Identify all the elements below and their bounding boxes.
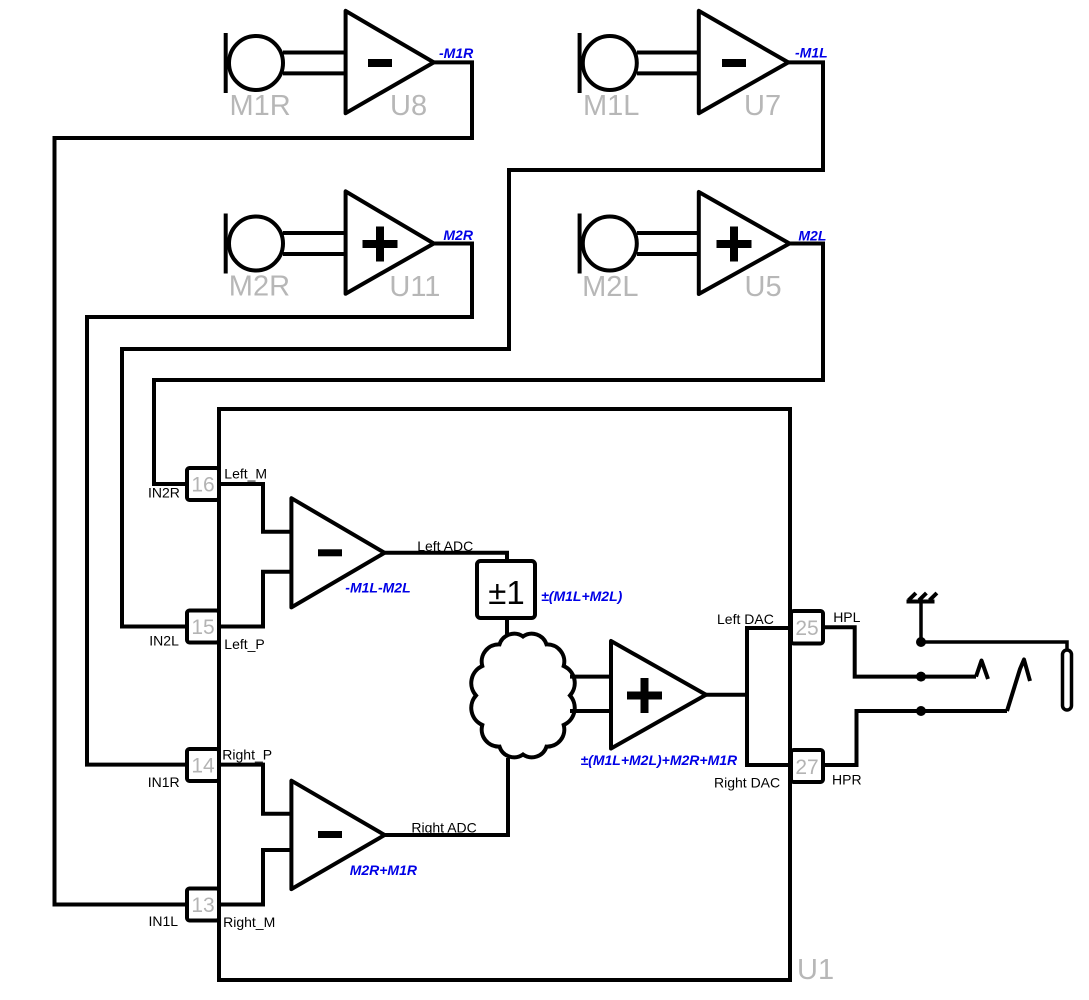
svg-text:-M1L-M2L: -M1L-M2L <box>345 580 410 596</box>
op-amp right ADC <box>291 781 384 889</box>
svg-text:U7: U7 <box>744 90 781 122</box>
svg-text:-M1L: -M1L <box>795 45 828 61</box>
jack sleeve <box>1063 650 1072 710</box>
svg-text:±(M1L+M2L): ±(M1L+M2L) <box>541 588 623 604</box>
svg-text:Right_M: Right_M <box>223 914 275 930</box>
op-amp summer <box>611 641 706 749</box>
svg-text:27: 27 <box>795 756 818 779</box>
wire U7 out to pin15 <box>122 62 823 626</box>
wire U11 out to pin14 <box>87 244 472 765</box>
cloud mixer <box>471 634 574 758</box>
ground <box>907 593 937 602</box>
wire ±1 to cloud <box>505 618 509 636</box>
wire pin15 to left ADC amp <box>219 572 291 627</box>
op-amp U5 <box>699 192 790 294</box>
pin 16 <box>187 468 219 500</box>
svg-text:HPR: HPR <box>832 772 862 788</box>
jack tip contact <box>976 661 988 680</box>
wire summer to DAC bracket <box>706 693 747 697</box>
svg-text:IN1R: IN1R <box>148 774 180 790</box>
svg-text:M2L: M2L <box>798 227 826 243</box>
svg-text:13: 13 <box>191 894 214 917</box>
svg-text:IN1L: IN1L <box>149 913 179 929</box>
svg-text:M2R: M2R <box>229 271 290 303</box>
wire pin14 to right ADC amp <box>219 765 291 814</box>
svg-text:M2R: M2R <box>443 227 473 243</box>
wire U8 out to pin13 <box>55 62 473 904</box>
svg-text:14: 14 <box>191 755 215 778</box>
pin 15 <box>187 611 219 643</box>
svg-text:M2R+M1R: M2R+M1R <box>350 862 418 878</box>
svg-text:16: 16 <box>191 474 214 497</box>
svg-text:U1: U1 <box>797 954 834 986</box>
svg-text:U5: U5 <box>745 271 782 303</box>
wire HPL to jack tip <box>823 627 976 676</box>
svg-text:HPL: HPL <box>833 609 860 625</box>
pin 25 <box>791 611 823 644</box>
microphone M2R <box>226 214 346 274</box>
junction ring <box>916 706 926 716</box>
svg-text:M1L: M1L <box>583 90 639 122</box>
svg-text:U8: U8 <box>390 90 427 122</box>
svg-text:U11: U11 <box>389 271 440 303</box>
svg-text:Left DAC: Left DAC <box>717 611 774 627</box>
wire HPR to jack ring <box>823 711 1007 765</box>
wire U5 out to pin16 <box>154 244 823 485</box>
svg-text:25: 25 <box>795 617 818 640</box>
svg-text:Right_P: Right_P <box>222 747 272 763</box>
svg-text:15: 15 <box>191 616 214 639</box>
svg-text:M2L: M2L <box>582 271 638 303</box>
svg-text:IN2L: IN2L <box>149 633 179 649</box>
microphone M2L <box>580 214 699 274</box>
wire right ADC to cloud <box>385 758 508 835</box>
op-amp U7 <box>699 11 789 113</box>
svg-text:Left_M: Left_M <box>224 466 267 482</box>
op-amp left ADC <box>291 498 384 607</box>
svg-text:IN2R: IN2R <box>148 485 180 501</box>
op-amp U8 <box>346 11 434 113</box>
svg-text:Right DAC: Right DAC <box>714 775 780 791</box>
wire pin13 to right ADC amp <box>219 850 291 905</box>
wire ground to jack sleeve <box>921 602 1067 651</box>
junction tip <box>916 672 926 682</box>
svg-text:M1R: M1R <box>230 90 291 122</box>
microphone M1R <box>226 33 346 93</box>
wire cloud to summer top <box>570 675 611 679</box>
microphone M1L <box>580 33 699 93</box>
IC U1 body <box>219 409 790 980</box>
wire pin16 to left ADC amp <box>219 484 291 532</box>
pin 14 <box>187 749 219 781</box>
DAC bracket <box>747 628 791 765</box>
jack ring contact <box>1007 660 1030 712</box>
wire left ADC to ±1 <box>385 553 507 561</box>
svg-text:-M1R: -M1R <box>439 45 474 61</box>
junction sleeve <box>916 637 926 647</box>
svg-text:Left_P: Left_P <box>224 636 264 652</box>
gain block ±1 <box>477 561 535 618</box>
svg-text:±(M1L+M2L)+M2R+M1R: ±(M1L+M2L)+M2R+M1R <box>581 752 739 768</box>
wire cloud to summer bottom <box>570 709 611 713</box>
svg-text:±1: ±1 <box>488 574 524 611</box>
op-amp U11 <box>346 191 434 293</box>
pin 27 <box>791 750 823 782</box>
pin 13 <box>187 889 219 921</box>
